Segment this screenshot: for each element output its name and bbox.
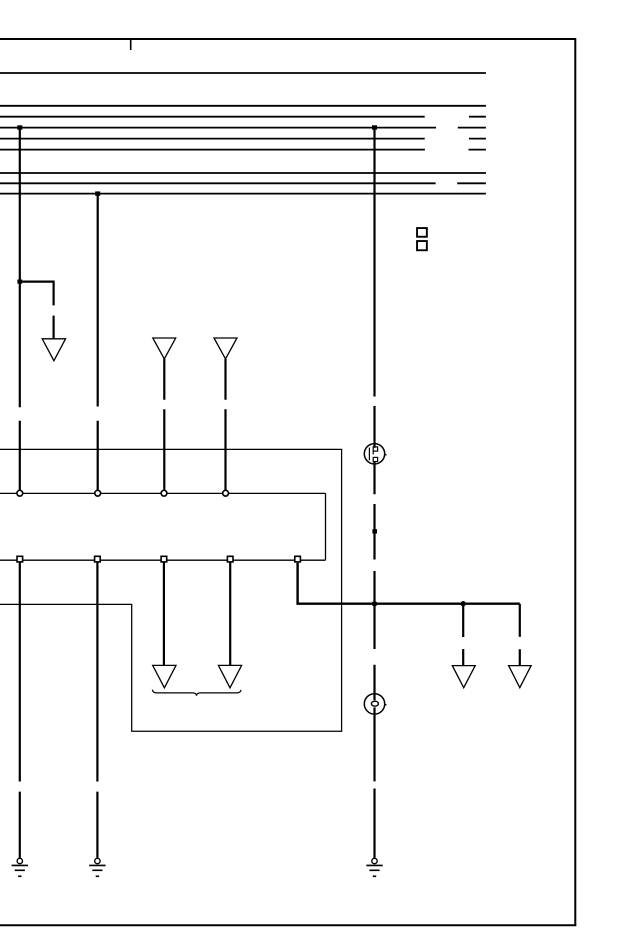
in-line connector C1 circle bbox=[364, 444, 384, 464]
wire E arrow drop 1 (x=463.2) bbox=[462, 604, 464, 666]
wire D vertical (x=225.5) bbox=[224, 359, 226, 490]
bus line 5 bbox=[0, 138, 486, 140]
in-line connector C2 circle bbox=[364, 694, 384, 714]
off-page arrow T5 bbox=[218, 665, 241, 687]
bus line 3 bbox=[0, 116, 486, 118]
connector label square 2 bbox=[417, 241, 427, 250]
wire F vertical (x=374.5) bbox=[373, 128, 375, 858]
ECM connector row 2 line bbox=[0, 559, 326, 561]
ground G1 bbox=[12, 858, 28, 876]
frame bottom border bbox=[0, 924, 576, 926]
bus line 7 bbox=[0, 172, 486, 174]
wire E arrow drop 2 (x=519.8) bbox=[519, 604, 521, 666]
junction dot on bus line 9 at wire B bbox=[95, 191, 100, 195]
junction dot on bus line 4 at wire F bbox=[372, 125, 377, 129]
connector pin square row2 p5 bbox=[295, 556, 301, 562]
connector pin circle row1 p4 bbox=[223, 490, 229, 496]
connector pin square row2 p4 bbox=[227, 556, 233, 562]
connector pin square row2 p2 bbox=[95, 556, 101, 562]
wire C vertical (x=164.3) bbox=[163, 359, 165, 490]
bus line 1 bbox=[0, 72, 486, 74]
bus line 2 bbox=[0, 105, 486, 107]
connector label square 1 bbox=[417, 228, 427, 237]
connector box squares bbox=[417, 228, 427, 250]
underbrace bracket bbox=[152, 690, 241, 696]
wire C lower (x=163.9) bbox=[163, 562, 165, 665]
off-page arrow T1 bbox=[42, 339, 65, 361]
wire A branch corner bbox=[20, 282, 54, 339]
ECM outer dashed-area box bbox=[0, 449, 342, 731]
frame top border bbox=[0, 38, 575, 40]
bus line 4 bbox=[0, 127, 486, 129]
ground G2 bbox=[89, 858, 105, 876]
off-page arrow T2 bbox=[153, 338, 176, 359]
ECM box right edge bbox=[325, 493, 327, 560]
splice dot on wire F bbox=[372, 529, 377, 533]
bus line 6 bbox=[0, 149, 486, 151]
wire A lower (x=19.8) bbox=[19, 562, 21, 858]
connector pin circle row1 p2 bbox=[95, 490, 101, 496]
junction dot at branch corner bbox=[17, 280, 22, 284]
wire B lower (x=97.4) bbox=[96, 562, 98, 858]
ground G3 bbox=[366, 858, 382, 876]
connector pin square row2 p3 bbox=[161, 556, 167, 562]
frame right border bbox=[574, 38, 576, 925]
connector pin square row2 p1 bbox=[17, 556, 23, 562]
off-page arrow T7 bbox=[509, 666, 531, 688]
connector C1 internals bbox=[369, 447, 386, 462]
connector C2 internals bbox=[371, 701, 386, 706]
ECM connector row 1 line bbox=[0, 492, 326, 494]
connector pin circle row1 p1 bbox=[17, 490, 23, 496]
wire D lower (x=230.2) bbox=[229, 562, 231, 665]
wire B vertical (x=97.7) bbox=[97, 194, 99, 491]
junction dot heavy wire arrow branch bbox=[461, 601, 466, 606]
connector pin circle row1 p3 bbox=[161, 490, 167, 496]
bus line 9 bbox=[0, 193, 486, 195]
off-page arrow T3 bbox=[214, 338, 237, 359]
frame tick mark bbox=[130, 39, 132, 50]
bus line 8 bbox=[0, 182, 486, 184]
off-page arrow T4 bbox=[153, 665, 176, 687]
wire E heavy run bbox=[298, 563, 520, 604]
junction dot on bus line 4 at wire A bbox=[17, 125, 22, 129]
wire A vertical (x=19.8) bbox=[19, 128, 21, 491]
junction dot wire F x heavy wire bbox=[372, 601, 377, 606]
off-page arrow T6 bbox=[452, 666, 475, 688]
